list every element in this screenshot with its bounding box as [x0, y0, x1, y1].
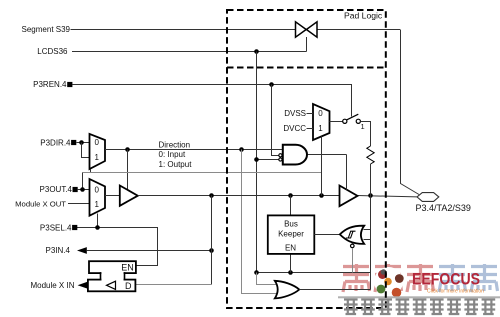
gate input bubble 1	[279, 154, 282, 157]
node pad line junction 4	[368, 193, 373, 198]
node P3IN junction	[209, 248, 214, 253]
svg-text:Module X IN: Module X IN	[30, 281, 74, 290]
svg-text:1: 1	[318, 124, 323, 133]
wire mux3 output	[330, 121, 343, 123]
wire bus keeper bottom	[290, 254, 292, 273]
node junction	[254, 157, 259, 162]
clock triangle	[107, 281, 116, 289]
switch S1 resistor enable	[343, 114, 361, 123]
watermark gray CJK row	[344, 299, 495, 315]
wire P3SEL.4 line	[77, 228, 158, 266]
watermark EEFOCUS icon	[374, 267, 404, 297]
wire mux2 select	[97, 214, 99, 228]
mux U2 P3OUT output mux	[90, 179, 106, 216]
pad hexagon P3.4	[417, 193, 439, 202]
transmission gate (LCD segment switch)	[296, 22, 318, 37]
svg-text:EEFOCUS: EEFOCUS	[412, 270, 480, 289]
node pad line junction 1	[209, 193, 214, 198]
wire OR top input (gray)	[257, 273, 278, 285]
wire LCDS36 line	[72, 51, 307, 53]
node pad line junction 2	[288, 193, 293, 198]
wire keeper enable line	[257, 272, 371, 274]
register bit square P3REN.4	[67, 82, 72, 87]
wire DVCC stub	[307, 128, 314, 130]
wire select drop to P3OUT	[82, 173, 84, 190]
wire to resistor	[360, 122, 370, 147]
wire LCDS36 vertical	[256, 52, 258, 273]
node P3DIR junction	[79, 140, 84, 145]
wire AND output	[307, 154, 347, 156]
mux U6 DVSS DVCC pull select	[313, 104, 330, 140]
node LCDS36 junction	[254, 49, 259, 54]
wire schmitt input stub 1	[364, 229, 371, 231]
hysteresis symbol	[346, 231, 356, 238]
svg-text:0: Input: 0: Input	[159, 150, 186, 159]
arrow Module X IN	[78, 282, 88, 289]
svg-text:0: 0	[95, 138, 100, 147]
wire D latch input (gray)	[135, 284, 211, 286]
node pad line junction 3	[319, 193, 324, 198]
wire resistor to pad line and schmitt	[370, 164, 372, 290]
svg-text:Bus: Bus	[284, 220, 298, 229]
gate input bubble 2	[279, 158, 282, 161]
wire schmitt enable (gray)	[352, 248, 354, 272]
svg-text:P3REN.4: P3REN.4	[33, 80, 67, 89]
wire mux2 output to buffer	[105, 195, 120, 197]
svg-text:Pad Logic: Pad Logic	[344, 11, 383, 21]
latch D box	[88, 280, 135, 292]
svg-text:P3.4/TA2/S39: P3.4/TA2/S39	[416, 203, 471, 213]
node direction junction 2	[239, 147, 244, 152]
wire P3REN to AND input A	[272, 85, 279, 156]
driver U4 pad driver	[340, 186, 358, 207]
mux U1 P3DIR direction mux	[90, 134, 106, 169]
node P3OUT junction	[80, 187, 85, 192]
svg-text:LCDS36: LCDS36	[37, 47, 68, 56]
svg-text:Direction: Direction	[159, 140, 191, 149]
svg-text:1: 1	[95, 200, 100, 209]
register bit square P3DIR.4	[71, 140, 76, 145]
svg-text:P3IN.4: P3IN.4	[46, 246, 71, 255]
wire bus keeper top	[290, 196, 292, 216]
pad logic dashed box	[227, 10, 386, 308]
node keeper line junction 1	[254, 270, 259, 275]
svg-text:P3DIR.4: P3DIR.4	[40, 138, 71, 147]
svg-text:Segment S39: Segment S39	[22, 25, 71, 34]
wire P3DIR loop to mux input 1	[82, 143, 90, 158]
wire P3IN.4 line	[87, 250, 212, 252]
wire direction to OR input (gray)	[242, 150, 278, 294]
wire P3DIR.4 line	[77, 142, 90, 144]
wire mux3 select	[321, 136, 323, 195]
svg-text:1: Output: 1: Output	[159, 160, 193, 169]
svg-text:1: 1	[361, 122, 365, 131]
wire P3OUT select line (gray)	[83, 172, 322, 174]
watermark underline	[338, 296, 500, 298]
dashed divider	[227, 67, 386, 69]
wire DVSS stub	[307, 113, 314, 115]
gate U8 schmitt trigger input buffer	[340, 226, 364, 244]
buffer U3 output buffer	[120, 186, 138, 206]
svg-text:0: 0	[95, 185, 100, 194]
wire OR output	[299, 289, 370, 291]
svg-text:Module X OUT: Module X OUT	[15, 199, 66, 208]
wire P3OUT.4 line	[78, 189, 90, 191]
wire driver enable	[346, 155, 348, 190]
latch neck	[101, 271, 123, 281]
wire Segment S39 line	[71, 30, 420, 195]
gate U5 AND resistor-enable	[283, 145, 307, 165]
svg-text:DVSS: DVSS	[284, 109, 306, 118]
node keeper line junction 2	[288, 270, 293, 275]
register bit square P3OUT.4	[73, 187, 78, 192]
svg-text:P3SEL.4: P3SEL.4	[40, 223, 72, 232]
wire pad line	[138, 196, 417, 197]
node direction junction 1	[125, 147, 130, 152]
register bit square P3SEL.4	[72, 225, 77, 230]
arrow P3IN.4	[77, 247, 87, 254]
latch EN box	[89, 261, 136, 273]
latch neck legs	[101, 272, 125, 280]
wire tap to input latch	[211, 196, 213, 285]
gate U9 OR bus keeper enable	[275, 281, 300, 299]
wire Module X OUT line	[68, 203, 90, 205]
wire buffer enable	[127, 150, 129, 191]
wire Direction line	[105, 149, 283, 151]
svg-text:Click for more information: Click for more information	[427, 289, 484, 295]
node P3SEL junction	[95, 225, 100, 230]
wire schmitt input stub 2	[364, 239, 371, 241]
box U7 bus keeper	[268, 215, 315, 254]
wire P3REN.4 line	[72, 85, 351, 117]
svg-text:P3OUT.4: P3OUT.4	[40, 185, 73, 194]
svg-text:D: D	[125, 281, 132, 291]
svg-text:0: 0	[318, 109, 323, 118]
svg-text:Keeper: Keeper	[278, 230, 304, 239]
svg-text:DVCC: DVCC	[283, 124, 306, 133]
resistor R1 pullup pulldown	[367, 146, 374, 164]
wire schmitt output	[314, 234, 340, 236]
wire switch control	[306, 37, 308, 52]
wire to AND input B	[257, 159, 279, 161]
watermark CJK row pink	[343, 264, 498, 292]
node P3REN junction	[269, 82, 274, 87]
schmitt enable bubble	[351, 244, 355, 248]
svg-text:EN: EN	[121, 263, 134, 273]
svg-text:EN: EN	[285, 244, 296, 253]
svg-text:1: 1	[95, 153, 100, 162]
wire mux1 select	[90, 169, 92, 173]
